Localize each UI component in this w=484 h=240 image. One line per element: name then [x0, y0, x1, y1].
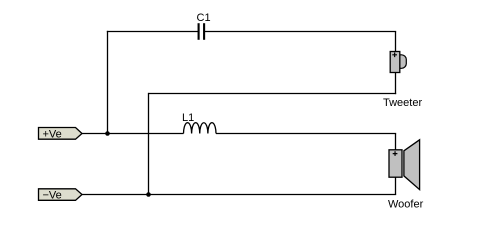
- inductor L1: [182, 112, 216, 134]
- svg-text:−Ve: −Ve: [43, 189, 62, 201]
- wire top rail right segment from C1 to tweeter drop: [205, 31, 396, 33]
- terminal -Ve: [39, 189, 83, 202]
- wire woofer drop vertical: [395, 134, 397, 151]
- woofer cone: [404, 140, 420, 190]
- wire top-left vertical from node A up to top rail: [107, 31, 109, 134]
- svg-text:+Ve: +Ve: [43, 128, 62, 140]
- wire tweeter return horizontal: [149, 93, 397, 95]
- wire from L1 to woofer drop: [216, 133, 396, 135]
- tweeter dome: [400, 55, 407, 69]
- svg-text:C1: C1: [197, 12, 211, 24]
- capacitor C1: [197, 12, 211, 40]
- woofer body: [389, 150, 402, 177]
- svg-text:L1: L1: [182, 112, 194, 124]
- svg-text:Woofer: Woofer: [388, 199, 424, 211]
- tweeter LS2: [383, 52, 422, 110]
- wire woofer bottom vertical: [395, 177, 397, 195]
- woofer LS1: [388, 140, 424, 211]
- tweeter body: [390, 52, 400, 73]
- node A junction dot: [105, 131, 110, 136]
- tweeter plus mark: [392, 53, 397, 58]
- svg-text:Tweeter: Tweeter: [383, 97, 422, 109]
- wire mid vertical from tweeter return down to node B: [148, 93, 150, 195]
- wire tweeter drop vertical: [395, 32, 397, 53]
- woofer plus mark: [393, 151, 398, 156]
- wire +Ve lead to L1: [82, 133, 184, 135]
- wire -Ve bottom rail: [82, 194, 396, 196]
- wire top rail left segment to C1: [107, 31, 198, 33]
- terminal +Ve: [39, 128, 83, 141]
- node B junction dot: [146, 192, 151, 197]
- wire tweeter return vertical: [395, 73, 397, 95]
